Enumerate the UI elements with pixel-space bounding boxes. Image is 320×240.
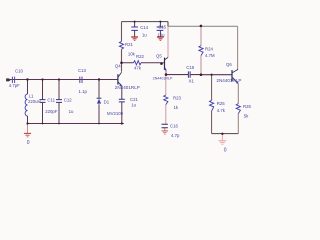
svg-text:R23: R23 [173,96,181,101]
svg-text:1u: 1u [69,109,74,114]
svg-text:Q6: Q6 [226,62,232,67]
svg-text:1u: 1u [142,32,147,37]
svg-text:R25: R25 [217,101,225,106]
svg-text:Q4: Q4 [115,63,121,68]
svg-text:0: 0 [27,140,30,146]
svg-text:C16: C16 [170,124,178,129]
svg-text:10u: 10u [157,32,165,37]
svg-text:C12: C12 [64,98,72,103]
svg-text:C14: C14 [140,25,148,30]
svg-text:4.7pF: 4.7pF [9,83,20,88]
svg-text:1k: 1k [174,105,179,110]
svg-text:X1: X1 [189,79,195,84]
svg-text:D1: D1 [104,99,110,104]
svg-text:R24: R24 [205,46,213,51]
svg-text:47k: 47k [134,65,142,70]
svg-text:0: 0 [224,147,227,153]
svg-text:C21: C21 [130,97,138,102]
svg-text:C15: C15 [158,25,166,30]
svg-text:R22: R22 [136,54,144,59]
svg-text:R26: R26 [243,104,251,109]
svg-text:2N4401RLP: 2N4401RLP [115,85,140,90]
svg-text:4.7M: 4.7M [205,53,215,58]
svg-text:Q5: Q5 [156,53,162,58]
svg-text:10k: 10k [128,51,136,56]
svg-text:2N4401RLP: 2N4401RLP [216,78,241,83]
svg-text:C18: C18 [186,65,194,70]
svg-text:4.7k: 4.7k [217,108,226,113]
svg-text:1.1p: 1.1p [79,89,88,94]
svg-text:220pF: 220pF [45,109,58,114]
svg-text:4.7p: 4.7p [171,133,180,138]
svg-text:C11: C11 [47,98,55,103]
svg-text:2N4401RLP: 2N4401RLP [153,76,173,80]
svg-text:MV2109: MV2109 [107,111,124,116]
svg-text:R21: R21 [125,42,133,47]
svg-text:5k: 5k [244,113,249,118]
svg-text:1u: 1u [131,102,136,107]
svg-text:220uH: 220uH [28,99,41,104]
svg-text:C10: C10 [15,68,23,73]
svg-text:C13: C13 [78,68,86,73]
